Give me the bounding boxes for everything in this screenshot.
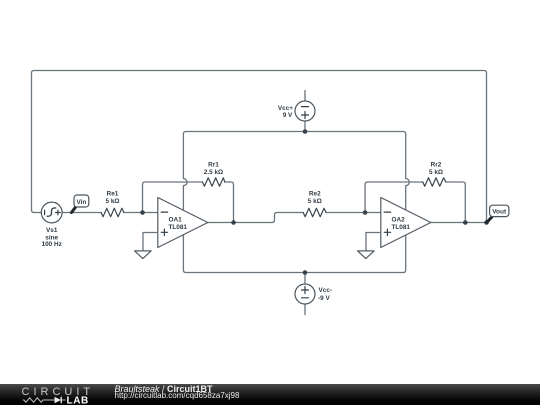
wire: OA2 feedback riser to Rr2 [365, 182, 423, 213]
svg-text:TL081: TL081 [392, 224, 411, 231]
label Re2 5 kOhm [308, 190, 322, 205]
svg-text:TL081: TL081 [169, 224, 188, 231]
label Vcc+ 9 V [278, 105, 293, 119]
wire: Vcc- rail (bottom) [186, 272, 403, 274]
node: OA1 output junction [231, 220, 236, 225]
svg-text:9 V: 9 V [283, 112, 293, 119]
svg-text:2.5 kΩ: 2.5 kΩ [204, 169, 223, 176]
CircuitLab logo [0, 384, 100, 405]
svg-text:Re1: Re1 [107, 190, 119, 197]
wire: OA2 output to Vout node [431, 222, 487, 224]
node: OA2 inverting input junction [363, 210, 368, 215]
net flag Vin [72, 195, 89, 213]
label OA2 TL081 [392, 216, 411, 231]
node: Vout [484, 220, 489, 225]
svg-text:100 Hz: 100 Hz [42, 241, 62, 248]
ground (OA1 non-inverting input) [135, 233, 158, 259]
footer bar [0, 384, 540, 405]
wire: OA1 power pins vertical (hops over feedback wire) [183, 132, 187, 273]
footer credit text [115, 385, 213, 393]
svg-text:LAB: LAB [67, 396, 89, 405]
resistor Re1 [101, 208, 124, 216]
resistor Rr2 [423, 178, 446, 186]
net flag Vout [487, 205, 509, 222]
svg-text:Vs1: Vs1 [46, 227, 58, 234]
label Vs1 sine 100 Hz [42, 227, 62, 248]
footer url [115, 392, 240, 400]
svg-text:5 kΩ: 5 kΩ [105, 198, 119, 205]
svg-text:Vout: Vout [492, 209, 507, 216]
label OA1 TL081 [169, 216, 188, 231]
svg-text:Rr2: Rr2 [431, 162, 442, 169]
op-amp OA1 [158, 198, 208, 248]
label Rr2 5 kOhm [429, 162, 443, 177]
wire: OA1 feedback riser to Rr1 [143, 182, 203, 213]
wire: Re2 to OA2 inverting input [326, 212, 381, 214]
op-amp OA2 [381, 198, 431, 248]
ground (OA2 non-inverting input) [358, 233, 381, 259]
svg-text:Re2: Re2 [309, 190, 321, 197]
svg-text:Rr1: Rr1 [208, 162, 219, 169]
node: OA1 inverting input junction [140, 210, 145, 215]
voltage source Vcc- -9V [295, 273, 315, 315]
label Vcc- -9 V [318, 287, 332, 302]
voltage source Vcc+ 9V [295, 91, 315, 132]
svg-text:5 kΩ: 5 kΩ [429, 169, 443, 176]
wire: Rr2 to OA2 output [446, 182, 466, 223]
svg-text:OA1: OA1 [169, 216, 183, 223]
node: Vcc+ rail junction [303, 129, 308, 134]
wire: outer loop from Vout node to Vs1 negative terminal [32, 71, 487, 223]
node: Vcc- rail junction [303, 270, 308, 275]
wire: OA1 output to Re2 (with step) [208, 213, 303, 223]
label Re1 5 kOhm [105, 190, 119, 205]
wire: OA2 power pins vertical (hops over feedback wire) [403, 132, 409, 273]
node: OA2 output junction [463, 220, 468, 225]
label Rr1 2.5 kOhm [204, 162, 223, 177]
svg-text:Vcc+: Vcc+ [278, 105, 293, 112]
wire: Vcc+ rail (top) [186, 131, 403, 133]
svg-text:Vcc-: Vcc- [319, 287, 333, 294]
svg-text:5 kΩ: 5 kΩ [308, 198, 322, 205]
svg-text:Vin: Vin [76, 199, 86, 206]
voltage source Vs1 (sine) [41, 202, 62, 223]
resistor Rr1 [203, 178, 225, 186]
wire: Re1 to OA1 inverting input [124, 212, 158, 214]
svg-text:-9 V: -9 V [318, 295, 330, 302]
wire: Rr1 to OA1 output [225, 182, 234, 223]
wire: Vs1 to Re1 [62, 212, 101, 214]
resistor Re2 [303, 208, 326, 216]
svg-text:OA2: OA2 [392, 216, 406, 223]
